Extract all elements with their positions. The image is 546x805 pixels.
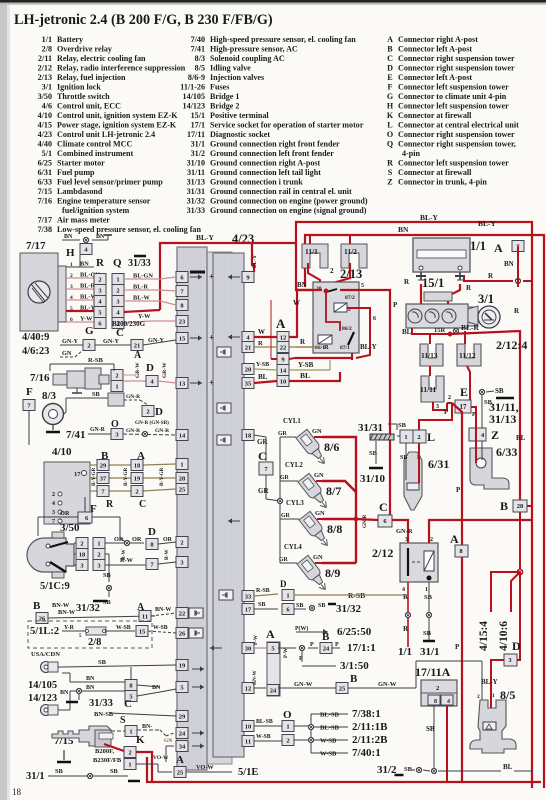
- ground 31/10: [360, 468, 386, 485]
- svg-text:7/38:1: 7/38:1: [352, 708, 381, 720]
- fuse 11/2: [341, 235, 367, 268]
- wire GN-R C6 to 2/12 pin 3: [356, 519, 413, 543]
- svg-text:GN: GN: [164, 738, 172, 744]
- svg-text:2: 2: [286, 737, 289, 744]
- svg-text:7/38: 7/38: [38, 225, 52, 234]
- bridge connectors 14/105 14/123: [28, 659, 176, 716]
- svg-text:5/1E: 5/1E: [238, 767, 258, 778]
- svg-text:Connector left A-post: Connector left A-post: [398, 73, 472, 82]
- svg-text:4/23: 4/23: [38, 130, 52, 139]
- injection valve 8/8 CYL3: [281, 500, 342, 550]
- wires air mass meter to R/Q connectors: [66, 261, 100, 324]
- svg-text:8/6-9: 8/6-9: [188, 73, 205, 82]
- svg-text:GN: GN: [313, 554, 323, 561]
- svg-text:11/1: 11/1: [305, 247, 318, 256]
- svg-text:BN: BN: [297, 281, 307, 289]
- injection valve 8/6 CYL1: [278, 418, 339, 468]
- ground SB chain 3/50: [103, 554, 112, 606]
- legend column 1: [38, 35, 202, 234]
- svg-text:Solenoid coupling AC: Solenoid coupling AC: [210, 54, 285, 63]
- svg-text:CYL2: CYL2: [285, 462, 303, 469]
- svg-text:11/1-26: 11/1-26: [180, 83, 205, 92]
- svg-text:24: 24: [323, 645, 330, 652]
- svg-text:W-SB: W-SB: [320, 738, 337, 745]
- svg-text:LH-jetronic 2.4 (B 200 F/G, B: LH-jetronic 2.4 (B 200 F/G, B 230 F/FB/G…: [14, 12, 273, 28]
- svg-text:2: 2: [436, 685, 439, 692]
- svg-text:E: E: [460, 385, 468, 399]
- svg-text:Overdrive relay: Overdrive relay: [57, 45, 112, 54]
- svg-text:W-SB: W-SB: [320, 751, 337, 758]
- ground 31/33 bottom: [66, 698, 176, 718]
- fuel level sensor 6/33: [470, 445, 517, 489]
- svg-text:2: 2: [128, 749, 131, 756]
- connector G and C row: [22, 325, 176, 361]
- svg-text:26: 26: [179, 630, 186, 637]
- svg-text:Connector left suspension towe: Connector left suspension tower: [398, 83, 509, 92]
- svg-text:W: W: [258, 328, 265, 336]
- svg-text:1: 1: [404, 434, 407, 441]
- svg-text:Battery: Battery: [57, 35, 83, 44]
- svg-text:D: D: [280, 579, 287, 589]
- svg-text:BN: BN: [80, 261, 89, 268]
- svg-text:A: A: [276, 316, 286, 331]
- svg-text:17: 17: [245, 606, 252, 613]
- svg-text:31/33: 31/33: [89, 698, 113, 709]
- svg-text:Starter motor: Starter motor: [57, 159, 105, 168]
- wire R pin21 to A22: [254, 340, 329, 351]
- svg-text:D: D: [146, 362, 154, 374]
- svg-text:GN-R: GN-R: [362, 514, 368, 528]
- svg-text:GN-W: GN-W: [378, 681, 397, 688]
- svg-text:20: 20: [245, 366, 252, 373]
- svg-text:18: 18: [79, 551, 86, 558]
- control unit 4/10: [44, 446, 90, 525]
- svg-text:BN-W: BN-W: [52, 602, 70, 609]
- svg-text:Connector right suspension tow: Connector right suspension tower: [398, 54, 515, 63]
- svg-text:W-SB: W-SB: [153, 625, 168, 631]
- svg-text:13: 13: [179, 380, 186, 387]
- svg-text:8/5: 8/5: [195, 64, 205, 73]
- svg-text:14/105: 14/105: [28, 680, 57, 691]
- svg-text:G: G: [85, 325, 94, 337]
- svg-text:10: 10: [280, 378, 287, 385]
- legend column 3: [387, 35, 519, 187]
- 8/3 connector box: [64, 391, 163, 418]
- svg-text:2: 2: [115, 372, 118, 379]
- svg-text:BN: BN: [86, 685, 95, 691]
- svg-text:Connector right suspension tow: Connector right suspension tower,: [398, 140, 516, 149]
- svg-text:1: 1: [286, 723, 289, 730]
- svg-text:R-W: R-W: [121, 549, 127, 560]
- wire OR row to D8 and pin 2: [105, 526, 176, 550]
- connector A box 8: [450, 532, 468, 557]
- svg-text:C: C: [258, 449, 267, 463]
- svg-text:31/33: 31/33: [187, 206, 205, 215]
- wires 15/1 to fuse holders: [430, 331, 465, 344]
- svg-text:22: 22: [179, 610, 186, 617]
- svg-text:SB: SB: [55, 768, 64, 775]
- svg-text:B: B: [33, 600, 41, 612]
- svg-text:17: 17: [74, 471, 81, 478]
- svg-text:28: 28: [179, 475, 186, 482]
- svg-text:11/12: 11/12: [459, 351, 476, 360]
- svg-text:Injection valves: Injection valves: [210, 73, 264, 82]
- svg-text:GN: GN: [314, 472, 324, 479]
- control unit 4/23 centre body: [187, 252, 232, 764]
- svg-text:BL-Y: BL-Y: [478, 219, 497, 228]
- wire Y-W to pin 23 / B200-230G: [112, 313, 176, 328]
- svg-text:P(W): P(W): [295, 625, 308, 632]
- svg-text:7/40: 7/40: [191, 35, 205, 44]
- svg-text:GN-Y: GN-Y: [103, 338, 120, 345]
- injection valve 8/7 CYL2: [280, 462, 341, 512]
- wire 17/11A pin4 to bus: [446, 706, 448, 782]
- svg-text:BL-Y: BL-Y: [80, 305, 95, 312]
- svg-text:BN: BN: [64, 234, 73, 240]
- svg-text:Q: Q: [113, 257, 122, 269]
- svg-text:2: 2: [146, 408, 149, 415]
- ignition lock 3/1: [468, 292, 500, 328]
- svg-text:7/41: 7/41: [191, 45, 205, 54]
- svg-text:31/31: 31/31: [187, 187, 205, 196]
- svg-text:18: 18: [245, 432, 252, 439]
- svg-text:1/1: 1/1: [470, 239, 486, 253]
- wire BL-Y top bus A: [296, 213, 532, 788]
- svg-text:2: 2: [80, 540, 83, 547]
- service socket 17/1:1 row: [278, 631, 376, 672]
- svg-text:4/10:6: 4/10:6: [498, 621, 510, 651]
- svg-text:Diagnostic socket: Diagnostic socket: [210, 130, 270, 139]
- svg-text:E: E: [387, 73, 392, 82]
- svg-text:18: 18: [134, 462, 141, 469]
- ground 31/11 31/13: [479, 387, 518, 426]
- svg-text:SB: SB: [424, 594, 433, 601]
- svg-text:GR-W: GR-W: [162, 362, 168, 378]
- wire SB 2/12 pin1 to ground 31/1: [420, 582, 440, 658]
- svg-text:Relay, fuel injection: Relay, fuel injection: [57, 73, 126, 82]
- connector B box 28: [500, 499, 527, 513]
- svg-text:7/17: 7/17: [38, 216, 52, 225]
- svg-text:Lambdasond: Lambdasond: [57, 187, 103, 196]
- svg-text:K: K: [136, 734, 145, 746]
- svg-text:CYL1: CYL1: [283, 418, 301, 425]
- svg-text:6/31: 6/31: [428, 457, 449, 471]
- ground 31/32 left: [76, 601, 107, 614]
- wire 11/13 down to 11/11: [429, 366, 431, 376]
- svg-text:12: 12: [245, 685, 252, 692]
- svg-text:Low-speed pressure sensor, el.: Low-speed pressure sensor, el. cooling f…: [57, 225, 201, 234]
- svg-text:Ground connection on engine (s: Ground connection on engine (signal grou…: [210, 206, 367, 215]
- svg-text:Positive terminal: Positive terminal: [210, 111, 269, 120]
- svg-text:31/32: 31/32: [336, 603, 362, 615]
- svg-text:P: P: [299, 656, 303, 662]
- svg-text:19: 19: [134, 475, 141, 482]
- svg-text:4/6: 4/6: [42, 102, 52, 111]
- svg-text:11: 11: [245, 738, 251, 745]
- svg-text:31/11: 31/11: [187, 168, 205, 177]
- svg-text:Connector right suspension tow: Connector right suspension tower: [398, 130, 515, 139]
- svg-text:GN-R: GN-R: [126, 428, 141, 434]
- wire P from relay down to bus: [390, 301, 398, 519]
- svg-text:GR-W: GR-W: [135, 362, 141, 378]
- svg-text:1: 1: [180, 461, 183, 468]
- ground rail 31/31: [358, 422, 407, 464]
- connector B26 to A11 BN-W row: [33, 600, 176, 624]
- svg-text:6/31: 6/31: [38, 168, 52, 177]
- svg-text:R: R: [96, 257, 105, 269]
- wire BL-Y A9 to relay: [271, 300, 295, 359]
- wire to 4/15:4: [491, 572, 520, 612]
- svg-text:4/15:4: 4/15:4: [478, 621, 490, 651]
- svg-text:19: 19: [179, 662, 186, 669]
- connector C box 7 injectors: [258, 449, 273, 475]
- svg-text:P-W: P-W: [253, 634, 259, 645]
- svg-text:Connector at firewall: Connector at firewall: [398, 168, 472, 177]
- wire GR bus to injectors: [254, 435, 292, 563]
- svg-text:W-SB: W-SB: [116, 625, 131, 631]
- svg-text:3: 3: [436, 404, 439, 410]
- svg-text:BL: BL: [300, 371, 310, 380]
- svg-text:4/40: 4/40: [38, 140, 52, 149]
- svg-text:1: 1: [115, 383, 118, 390]
- svg-text:86/2: 86/2: [342, 326, 352, 332]
- AC solenoid coupling 8/3: [42, 390, 64, 432]
- svg-text:O: O: [387, 130, 393, 139]
- svg-text:P: P: [456, 486, 461, 494]
- svg-text:29: 29: [179, 713, 186, 720]
- svg-text:Fuel level sensor/primer pump: Fuel level sensor/primer pump: [57, 178, 163, 187]
- svg-text:3: 3: [405, 537, 408, 543]
- svg-text:SB: SB: [495, 387, 504, 395]
- wire 6/25:50 arrow: [295, 625, 372, 638]
- svg-text:BL-Y: BL-Y: [360, 343, 377, 351]
- svg-text:31/32: 31/32: [76, 603, 100, 614]
- svg-text:Control unit, ECC: Control unit, ECC: [57, 102, 121, 111]
- svg-text:4/6:23: 4/6:23: [22, 346, 49, 357]
- svg-text:GN-R: GN-R: [155, 428, 170, 434]
- svg-text:R: R: [324, 344, 329, 351]
- svg-text:7: 7: [52, 519, 55, 525]
- connector B column mid: [97, 450, 114, 510]
- svg-text:31/13: 31/13: [187, 178, 205, 187]
- svg-text:GR: GR: [258, 487, 269, 495]
- svg-text:2/13: 2/13: [38, 73, 52, 82]
- svg-text:BL: BL: [516, 434, 526, 442]
- svg-text:Idling valve: Idling valve: [210, 64, 251, 73]
- svg-text:2/8: 2/8: [42, 45, 52, 54]
- fuse holder 11/12: [457, 344, 481, 366]
- svg-text:SB: SB: [426, 725, 435, 733]
- wire BN / BL-Y top bus B: [305, 219, 544, 788]
- svg-text:4/10: 4/10: [38, 111, 52, 120]
- svg-text:18: 18: [12, 787, 22, 797]
- wire P from E17 to 6/33: [471, 407, 476, 463]
- svg-text:Q: Q: [387, 140, 393, 149]
- wire GN feed bus to injectors: [322, 437, 358, 563]
- svg-text:2/12: 2/12: [38, 64, 52, 73]
- svg-text:2/8: 2/8: [88, 637, 101, 648]
- svg-text:4/15: 4/15: [38, 121, 52, 130]
- svg-text:BN: BN: [86, 676, 95, 682]
- svg-text:S: S: [388, 168, 393, 177]
- svg-text:14: 14: [280, 367, 287, 374]
- svg-text:+: +: [209, 333, 214, 343]
- wire B28 to right bus: [527, 505, 532, 507]
- connector E box 17: [455, 385, 471, 413]
- svg-text:1: 1: [286, 592, 289, 599]
- svg-text:R-Y-GR: R-Y-GR: [123, 467, 129, 486]
- svg-text:Ground connection right front: Ground connection right front fender: [210, 140, 340, 149]
- svg-text:R-W: R-W: [164, 549, 170, 560]
- svg-text:87/2: 87/2: [345, 295, 355, 301]
- svg-text:Bridge 2: Bridge 2: [210, 102, 239, 111]
- svg-text:1: 1: [492, 693, 495, 699]
- svg-text:Y-SB: Y-SB: [256, 362, 269, 368]
- svg-text:2/11:2B: 2/11:2B: [352, 734, 388, 746]
- connector F box 7: [23, 386, 35, 445]
- svg-text:R-SB: R-SB: [88, 357, 103, 364]
- svg-text:2: 2: [97, 551, 100, 558]
- svg-text:GN-Y: GN-Y: [148, 337, 165, 344]
- svg-text:35: 35: [245, 380, 252, 387]
- svg-text:31/10: 31/10: [187, 159, 205, 168]
- svg-text:2: 2: [98, 276, 101, 283]
- wire R-W row to D7 and pin 3: [105, 549, 176, 570]
- svg-text:25: 25: [179, 486, 186, 493]
- wires Q to control unit pins 6 7 8: [124, 273, 176, 306]
- svg-text:SB: SB: [103, 572, 112, 579]
- svg-text:8/3: 8/3: [195, 54, 205, 63]
- svg-text:Ground connection left front f: Ground connection left front fender: [210, 149, 334, 158]
- svg-text:21: 21: [134, 342, 141, 349]
- svg-text:A: A: [176, 754, 184, 766]
- svg-text:GR: GR: [280, 475, 290, 481]
- svg-text:Ground connection left tail li: Ground connection left tail light: [210, 168, 321, 177]
- svg-text:Bridge 1: Bridge 1: [210, 92, 239, 101]
- svg-text:G: G: [387, 92, 394, 101]
- svg-text:2/12: 2/12: [372, 546, 393, 560]
- connector Q column: [112, 257, 124, 329]
- svg-text:VO-W: VO-W: [196, 764, 214, 771]
- svg-text:31/13: 31/13: [489, 412, 516, 426]
- wire BL-Y relay to A9: [295, 343, 377, 358]
- svg-text:2: 2: [430, 537, 433, 543]
- svg-text:5/1: 5/1: [42, 149, 52, 158]
- svg-text:+: +: [209, 378, 214, 388]
- svg-text:H: H: [66, 247, 75, 259]
- svg-text:Ground connection rail in cent: Ground connection rail in central el. un…: [210, 187, 352, 196]
- svg-text:Y-W: Y-W: [138, 313, 151, 320]
- svg-text:A: A: [387, 35, 393, 44]
- wire BL-Y thick from Q4 to bus: [124, 310, 160, 312]
- svg-text:3: 3: [52, 510, 55, 516]
- pin 25 bottom: [174, 754, 186, 778]
- svg-text:5/1L:2: 5/1L:2: [30, 626, 59, 637]
- svg-text:4: 4: [447, 699, 450, 705]
- svg-text:Engine temperature sensor: Engine temperature sensor: [57, 197, 151, 206]
- svg-text:High-speed pressure sensor, el: High-speed pressure sensor, el. cooling …: [210, 35, 356, 44]
- svg-text:31/32: 31/32: [187, 197, 205, 206]
- svg-text:17/11: 17/11: [187, 130, 205, 139]
- svg-text:BL-Y: BL-Y: [252, 255, 258, 268]
- svg-text:12: 12: [280, 334, 287, 341]
- svg-text:3/1:50: 3/1:50: [340, 660, 369, 672]
- svg-text:15/1: 15/1: [422, 276, 444, 290]
- svg-text:15: 15: [179, 335, 186, 342]
- svg-text:W-SB: W-SB: [256, 734, 271, 740]
- battery 1/1: [413, 238, 486, 280]
- svg-text:BL-R: BL-R: [461, 323, 480, 332]
- svg-text:BN-W: BN-W: [58, 609, 76, 616]
- svg-text:15R: 15R: [434, 327, 446, 334]
- svg-text:P: P: [455, 643, 460, 651]
- svg-text:BN: BN: [504, 260, 514, 268]
- wire BL-Y bus C to pin 9: [160, 233, 296, 310]
- svg-text:B200F,: B200F,: [95, 748, 114, 755]
- svg-text:F: F: [388, 83, 393, 92]
- svg-text:2: 2: [87, 342, 90, 349]
- svg-text:SB: SB: [398, 422, 407, 429]
- svg-text:GN-R: GN-R: [90, 427, 106, 433]
- svg-text:31/10: 31/10: [360, 473, 386, 485]
- svg-text:Connector in trunk, 4-pin: Connector in trunk, 4-pin: [398, 178, 487, 187]
- svg-text:25: 25: [339, 685, 346, 692]
- svg-text:R: R: [106, 499, 114, 510]
- svg-text:Ground connection i trunk: Ground connection i trunk: [210, 178, 303, 187]
- svg-text:H: H: [387, 102, 394, 111]
- svg-text:D: D: [512, 639, 521, 653]
- svg-text:BN-: BN-: [142, 724, 152, 730]
- svg-text:17/1:1: 17/1:1: [347, 642, 376, 654]
- svg-text:Fuses: Fuses: [210, 83, 229, 92]
- connector R column: [94, 257, 106, 329]
- svg-text:P: P: [393, 301, 398, 309]
- svg-text:Connector right A-post: Connector right A-post: [398, 35, 478, 44]
- svg-text:24: 24: [270, 687, 277, 694]
- svg-text:4/40:9: 4/40:9: [22, 332, 49, 343]
- svg-text:GN: GN: [315, 510, 325, 517]
- svg-text:C: C: [387, 54, 393, 63]
- positive terminal 15/1: [406, 276, 478, 328]
- svg-text:6/33: 6/33: [38, 178, 52, 187]
- svg-text:1/1: 1/1: [398, 646, 412, 658]
- wires 4/10 to B and A columns: [90, 464, 176, 491]
- svg-text:2: 2: [116, 287, 119, 294]
- svg-text:BN-W: BN-W: [155, 607, 171, 613]
- svg-text:5/1C:9: 5/1C:9: [40, 581, 70, 592]
- svg-text:14: 14: [179, 432, 186, 439]
- wire R down right side: [514, 246, 520, 315]
- svg-text:14/105: 14/105: [183, 92, 205, 101]
- connector D4 GR-W to pin 13: [123, 362, 176, 387]
- svg-text:1: 1: [425, 587, 428, 593]
- svg-text:A: A: [494, 241, 503, 255]
- connector A column 5-24 body: [267, 642, 280, 696]
- svg-text:A: A: [134, 350, 142, 361]
- svg-text:11/2: 11/2: [344, 247, 357, 256]
- svg-text:14/123: 14/123: [28, 693, 57, 704]
- wire SB pin17 to D6 ground 31/32: [254, 602, 362, 615]
- svg-text:SB: SB: [318, 603, 325, 609]
- svg-text:31/2: 31/2: [191, 149, 205, 158]
- svg-text:7/15: 7/15: [38, 187, 52, 196]
- bottom bus: [147, 757, 541, 782]
- wire D3 to idling valve: [481, 660, 504, 718]
- high-pressure sensor 7/41 row: [66, 419, 176, 441]
- svg-text:Combined instrument: Combined instrument: [57, 149, 134, 158]
- diagnostic socket 17/11A: [415, 665, 457, 768]
- svg-text:4: 4: [52, 501, 55, 507]
